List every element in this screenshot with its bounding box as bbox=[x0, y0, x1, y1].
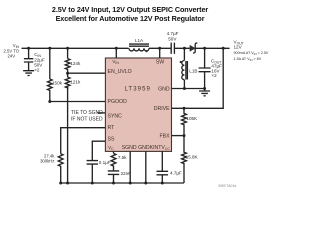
resistor 15.8K bbox=[182, 136, 187, 183]
svg-text:EN_UVLO: EN_UVLO bbox=[108, 69, 132, 75]
svg-text:FBX: FBX bbox=[160, 134, 171, 140]
svg-text:SGND: SGND bbox=[122, 145, 137, 151]
svg-text:RT: RT bbox=[108, 125, 116, 131]
svg-text:900mA AT VIN = 2.5V: 900mA AT VIN = 2.5V bbox=[234, 51, 269, 56]
svg-text:124k: 124k bbox=[70, 61, 81, 66]
svg-text:24V: 24V bbox=[8, 53, 16, 58]
svg-text:15.8K: 15.8K bbox=[186, 155, 199, 160]
wire VIN pin bbox=[115, 48, 117, 58]
wire SYNC pointer bbox=[97, 112, 105, 114]
svg-text:L1A: L1A bbox=[135, 38, 144, 43]
svg-text:SW: SW bbox=[156, 59, 164, 65]
svg-text:DRIVE: DRIVE bbox=[154, 106, 170, 112]
svg-text:50V: 50V bbox=[34, 62, 43, 67]
node CIN junction bbox=[27, 47, 30, 50]
svg-text:105K: 105K bbox=[186, 116, 198, 121]
ground output bbox=[199, 91, 210, 96]
resistor 105K bbox=[182, 108, 187, 135]
wire GNDK pin bbox=[145, 151, 147, 183]
svg-text:GNDK: GNDK bbox=[138, 145, 154, 151]
node feedback tap junction bbox=[222, 47, 225, 50]
capacitor 22nF bbox=[108, 171, 119, 175]
svg-text:×2: ×2 bbox=[34, 68, 40, 73]
node COUT bottom junction bbox=[203, 87, 206, 90]
node EN divider junction bbox=[66, 72, 69, 75]
wire EN/UVLO bbox=[68, 72, 106, 74]
svg-text:LT3959: LT3959 bbox=[124, 86, 151, 92]
node 150k junction bbox=[48, 47, 51, 50]
wire SGND pin bbox=[129, 151, 131, 183]
IC U1 LT3959 bbox=[105, 58, 171, 151]
capacitor SS 0.1µF bbox=[87, 161, 98, 165]
node L1B phase dot bbox=[180, 61, 182, 63]
svg-text:PGOOD: PGOOD bbox=[108, 99, 128, 105]
resistor 150k bbox=[49, 48, 51, 79]
svg-text:Excellent for Automotive 12V P: Excellent for Automotive 12V Post Regula… bbox=[56, 14, 205, 23]
svg-text:3959 TA01a: 3959 TA01a bbox=[218, 184, 236, 188]
wire PGOOD bbox=[50, 101, 106, 103]
node PGOOD 150k junction bbox=[48, 100, 51, 103]
wire RT bbox=[61, 128, 106, 154]
svg-text:4.7µF: 4.7µF bbox=[170, 171, 182, 176]
wire ground rail bbox=[61, 182, 184, 184]
svg-text:GND: GND bbox=[158, 86, 170, 92]
svg-text:L1B: L1B bbox=[189, 69, 197, 74]
node SW junction bbox=[158, 47, 161, 50]
wire SW pin bbox=[159, 48, 161, 58]
capacitor 4.7µF 50V coupling bbox=[149, 47, 190, 49]
diode D1 schottky bbox=[190, 45, 195, 51]
node 124k junction bbox=[66, 47, 69, 50]
svg-text:300kHz: 300kHz bbox=[40, 158, 54, 163]
svg-text:1.5A AT VIN > 8V: 1.5A AT VIN > 8V bbox=[234, 57, 262, 62]
inductor L1B bbox=[183, 48, 185, 60]
resistor 7.5k bbox=[111, 153, 116, 170]
node L1A phase dot bbox=[145, 50, 147, 52]
node DRIVE divider junction bbox=[183, 107, 186, 110]
capacitor COUT bbox=[204, 48, 206, 68]
svg-text:4.7µF: 4.7µF bbox=[167, 31, 179, 36]
svg-text:SS: SS bbox=[108, 137, 115, 143]
wire SS bbox=[92, 141, 105, 160]
capacitor VC 7.5k 22nF network bbox=[113, 151, 115, 153]
wire VOUT to DRIVE feedback bbox=[172, 48, 224, 108]
node L1B top junction bbox=[183, 47, 186, 50]
svg-text:121k: 121k bbox=[70, 79, 81, 84]
node rail junctions bbox=[59, 182, 62, 185]
node L1B bottom junction bbox=[183, 87, 186, 90]
svg-text:0.1µF: 0.1µF bbox=[99, 160, 111, 165]
resistor 121k bbox=[67, 73, 69, 77]
node COUT junction bbox=[203, 47, 206, 50]
wire FBX bbox=[172, 135, 185, 137]
wire GND pin to ground bbox=[172, 88, 205, 90]
node FBX junction bbox=[183, 134, 186, 137]
svg-text:2.5V to 24V Input, 12V Output: 2.5V to 24V Input, 12V Output SEPIC Conv… bbox=[52, 5, 208, 14]
wire 121k to ground rail bbox=[67, 87, 69, 183]
svg-text:IF NOT USED: IF NOT USED bbox=[71, 117, 103, 123]
node VIN pin junction bbox=[115, 47, 118, 50]
ground CIN bbox=[23, 71, 34, 76]
svg-text:12V: 12V bbox=[234, 45, 243, 50]
svg-text:50V: 50V bbox=[168, 36, 177, 41]
wire top VIN rail bbox=[22, 47, 129, 49]
resistor 124k bbox=[67, 48, 69, 58]
svg-text:150k: 150k bbox=[52, 80, 63, 85]
capacitor INTVCC 4.7µF bbox=[161, 151, 163, 171]
svg-text:SYNC: SYNC bbox=[108, 114, 123, 120]
capacitor CIN bbox=[28, 48, 30, 58]
resistor 27.4k 300kHz bbox=[58, 154, 63, 183]
svg-text:7.5k: 7.5k bbox=[118, 155, 127, 160]
svg-text:×2: ×2 bbox=[211, 73, 217, 78]
